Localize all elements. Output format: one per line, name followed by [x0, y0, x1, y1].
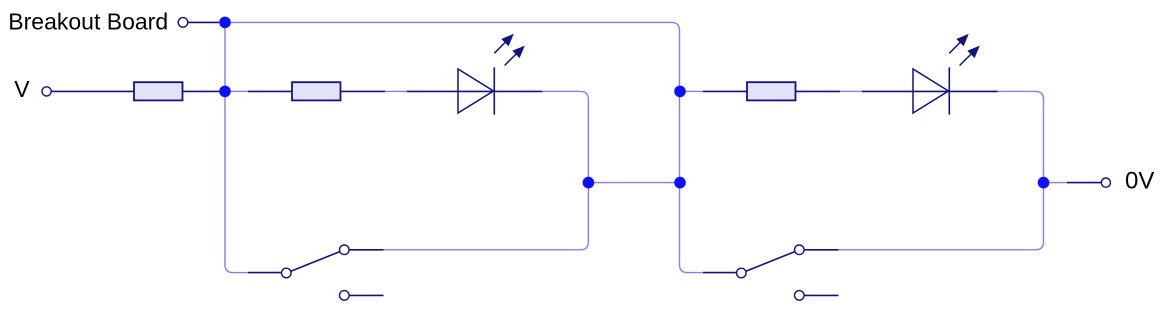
terminal TP1 Breakout Board	[178, 18, 219, 28]
svg-text:V: V	[14, 76, 30, 102]
junction	[674, 86, 686, 98]
LED D1	[407, 34, 543, 115]
svg-text:0V: 0V	[1125, 167, 1154, 194]
wire	[225, 90, 248, 92]
resistor R1	[134, 82, 225, 100]
junction	[583, 177, 595, 189]
wire	[225, 22, 703, 272]
wire	[840, 90, 862, 92]
switch SW2	[703, 245, 839, 300]
wire	[225, 22, 248, 272]
wire	[680, 90, 703, 92]
wire	[588, 182, 680, 184]
terminal 0V	[1067, 167, 1154, 194]
wire	[1044, 182, 1068, 184]
switch SW1	[248, 245, 384, 300]
junction	[219, 17, 231, 29]
wire	[384, 91, 589, 249]
resistor R2	[248, 82, 385, 100]
LED D2	[862, 34, 998, 115]
junction	[219, 86, 231, 98]
svg-text:Breakout Board: Breakout Board	[8, 9, 168, 35]
wire	[839, 91, 1044, 249]
junction	[1038, 177, 1050, 189]
resistor R3	[703, 82, 840, 100]
wire	[385, 90, 407, 92]
terminal V	[14, 76, 134, 102]
junction	[674, 177, 686, 189]
